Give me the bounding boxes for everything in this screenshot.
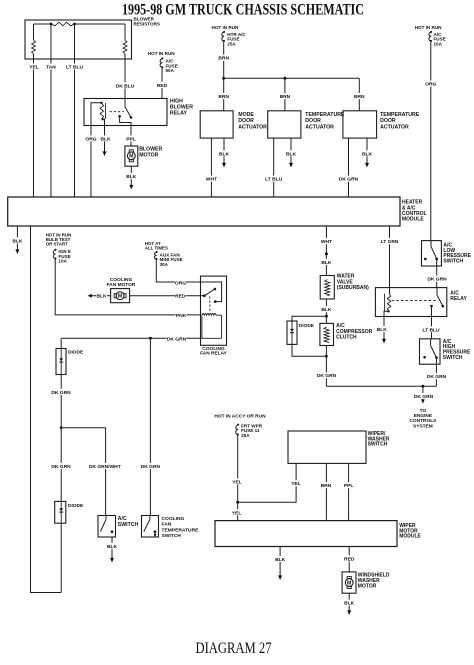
- compressor clutch A/C: [320, 323, 373, 345]
- svg-text:ORG: ORG: [425, 82, 436, 88]
- svg-text:TAN: TAN: [46, 65, 56, 71]
- switch A/C: [98, 516, 139, 538]
- svg-text:BRN: BRN: [354, 94, 365, 100]
- svg-text:BLK: BLK: [12, 238, 23, 244]
- wire DK GRN bus lower: [326, 385, 436, 388]
- svg-text:BLK: BLK: [321, 260, 332, 266]
- cooling fan motor: [107, 277, 136, 303]
- svg-text:CLUTCH: CLUTCH: [336, 335, 357, 341]
- diagram number: [196, 640, 272, 657]
- svg-text:BLK: BLK: [107, 544, 118, 550]
- wire PPL wiper: [343, 463, 354, 520]
- svg-text:DIODE: DIODE: [68, 503, 84, 509]
- ground BLK washer motor: [344, 593, 355, 615]
- wire DK GRN low pressure: [427, 266, 447, 288]
- svg-text:BRN: BRN: [280, 94, 291, 100]
- svg-text:BLK: BLK: [377, 327, 388, 333]
- diode D2: [55, 501, 84, 523]
- wire BRN bus: [224, 77, 360, 80]
- svg-text:ALL TIMES: ALL TIMES: [145, 245, 168, 250]
- svg-text:YEL: YEL: [232, 510, 242, 516]
- wire below D2: [60, 523, 62, 592]
- svg-text:DOOR: DOOR: [238, 118, 254, 124]
- wire WHT water valve: [321, 226, 332, 276]
- wire LT GRN: [380, 226, 400, 288]
- ground module BLK: [12, 226, 23, 254]
- svg-text:HOT IN RUN: HOT IN RUN: [148, 51, 175, 56]
- svg-text:M: M: [347, 580, 351, 586]
- svg-text:TEMPERATURE: TEMPERATURE: [380, 112, 420, 118]
- svg-text:MOTOR: MOTOR: [139, 153, 158, 159]
- wire diode branch bottom: [292, 344, 328, 357]
- wire WHT: [206, 138, 217, 197]
- svg-text:30A: 30A: [160, 262, 169, 267]
- svg-text:ORG: ORG: [85, 136, 96, 142]
- svg-text:1995-98 GM TRUCK CHASSIS SCHEM: 1995-98 GM TRUCK CHASSIS SCHEMATIC: [122, 1, 364, 18]
- svg-text:TO: TO: [420, 408, 427, 414]
- svg-text:DK GRN: DK GRN: [51, 390, 71, 396]
- diode D1: [56, 349, 84, 375]
- temperature door actuator 1: [268, 111, 345, 138]
- wire DK GRN bus upper: [61, 335, 200, 348]
- svg-text:FAN: FAN: [162, 522, 172, 528]
- svg-text:BLK: BLK: [344, 601, 355, 607]
- A/C relay coil: [384, 288, 391, 317]
- svg-text:DK GRN: DK GRN: [167, 336, 187, 342]
- wiper/washer switch: [288, 431, 390, 464]
- svg-text:BLK: BLK: [321, 307, 332, 313]
- svg-text:COOLING: COOLING: [162, 516, 185, 522]
- svg-text:LT BLU: LT BLU: [265, 177, 282, 183]
- wire BLK relay ground: [100, 126, 111, 157]
- wire DK BLU: [115, 59, 135, 99]
- svg-text:ACTUATOR: ACTUATOR: [380, 124, 409, 130]
- wire BRN branch 2: [279, 78, 290, 111]
- switch A/C high pressure: [420, 339, 471, 364]
- svg-text:FAN RELAY: FAN RELAY: [200, 351, 228, 357]
- wire ORG: [85, 126, 96, 198]
- wire DK GRN actuator: [339, 138, 359, 197]
- svg-text:SWITCH: SWITCH: [443, 259, 463, 265]
- svg-text:BRN: BRN: [321, 483, 332, 489]
- svg-text:MODE: MODE: [238, 112, 254, 118]
- svg-text:10A: 10A: [58, 259, 67, 264]
- wire ORG aux fan: [156, 259, 200, 286]
- wire BRN branch 3: [354, 78, 365, 111]
- svg-text:BLK: BLK: [100, 136, 111, 142]
- svg-text:BLK: BLK: [96, 294, 107, 300]
- ground BLK A/C switch: [107, 537, 118, 563]
- node to engine controls: [409, 386, 437, 429]
- svg-text:HOT IN ACCY OR RUN: HOT IN ACCY OR RUN: [214, 414, 266, 420]
- svg-text:SYSTEM: SYSTEM: [413, 423, 433, 429]
- svg-text:YEL: YEL: [291, 481, 301, 487]
- svg-text:BRN: BRN: [218, 56, 229, 62]
- svg-text:25A: 25A: [241, 433, 250, 438]
- wire DK GRN clutch: [317, 346, 337, 387]
- wire RED cooling fan: [130, 293, 201, 300]
- wire DK GRN high pressure: [427, 364, 447, 386]
- ground temp actuator 1: [286, 138, 297, 167]
- svg-text:DK GRN: DK GRN: [414, 394, 434, 400]
- relay coil: [91, 102, 106, 126]
- blower resistors: [25, 16, 160, 59]
- fuse AUX FAN MINI FUSE 30A: [145, 241, 183, 267]
- svg-text:DK GRN/WHT: DK GRN/WHT: [89, 464, 121, 470]
- wire DK GRN below D1: [51, 375, 71, 428]
- svg-text:PPL: PPL: [344, 483, 354, 489]
- svg-text:BLK: BLK: [126, 174, 137, 180]
- svg-text:50A: 50A: [166, 68, 175, 73]
- wire YEL: [29, 59, 40, 197]
- fuse HTR A/C FUSE 25A: [212, 25, 247, 46]
- svg-text:DK GRN: DK GRN: [51, 464, 71, 470]
- title: [122, 1, 364, 18]
- svg-text:MODULE: MODULE: [402, 217, 424, 223]
- svg-text:HOT IN RUN: HOT IN RUN: [212, 25, 239, 30]
- svg-text:WHT: WHT: [321, 239, 332, 245]
- ground mode actuator: [219, 138, 230, 167]
- svg-text:SWITCH: SWITCH: [443, 355, 463, 361]
- heater and A/C control module: [8, 197, 427, 226]
- svg-text:RED: RED: [157, 83, 168, 89]
- wire BRN trunk: [218, 41, 229, 111]
- wire LT BLU actuator: [264, 138, 284, 197]
- svg-text:HOT IN RUN: HOT IN RUN: [415, 25, 442, 30]
- fuse A/C FUSE 50A: [148, 51, 178, 73]
- fuse IGN E 10A: [46, 233, 72, 264]
- svg-text:BLK: BLK: [362, 151, 373, 157]
- wire PNK: [55, 259, 200, 320]
- svg-text:LT BLU: LT BLU: [66, 65, 83, 71]
- wire BLK blower motor ground: [126, 166, 137, 189]
- svg-text:DK BLU: DK BLU: [116, 83, 135, 89]
- svg-text:DIODE: DIODE: [299, 323, 315, 329]
- svg-text:BLK: BLK: [286, 151, 297, 157]
- wire BRN wiper: [321, 463, 332, 520]
- svg-text:TEMPERATURE: TEMPERATURE: [305, 112, 345, 118]
- fuse A/C FUSE 10A: [415, 25, 446, 46]
- A/C relay switch: [392, 288, 444, 317]
- svg-text:RED: RED: [344, 556, 355, 562]
- ground BLK A/C relay: [376, 317, 387, 344]
- wire TAN: [46, 59, 57, 197]
- svg-text:DK GRN: DK GRN: [317, 373, 337, 379]
- svg-text:SWITCH: SWITCH: [368, 442, 388, 448]
- svg-text:DK GRN: DK GRN: [427, 374, 447, 380]
- svg-text:BLOWER: BLOWER: [139, 146, 162, 152]
- relay cooling fan: [200, 276, 228, 357]
- wire RED washer: [344, 547, 355, 572]
- svg-text:M: M: [129, 154, 133, 160]
- windshield washer motor: [342, 572, 390, 593]
- wire BLK below water valve: [321, 299, 332, 323]
- svg-text:SWITCH: SWITCH: [162, 533, 182, 539]
- svg-text:DIODE: DIODE: [68, 350, 84, 356]
- svg-text:DK GRN: DK GRN: [141, 464, 161, 470]
- temperature door actuator 2: [343, 111, 420, 138]
- switch cooling fan temperature: [142, 516, 200, 540]
- svg-text:FAN MOTOR: FAN MOTOR: [107, 282, 136, 288]
- node T junction: [60, 426, 106, 429]
- svg-text:WHT: WHT: [206, 177, 217, 183]
- svg-text:ACTUATOR: ACTUATOR: [238, 124, 267, 130]
- svg-text:RELAY: RELAY: [170, 110, 188, 116]
- fuse FRT WPR FUSE 11 25A: [214, 414, 266, 438]
- mode door actuator: [200, 111, 267, 138]
- diode D3: [287, 321, 315, 344]
- svg-text:MODULE: MODULE: [399, 534, 421, 540]
- svg-text:ORG: ORG: [175, 281, 186, 287]
- water valve: [320, 274, 369, 299]
- svg-text:RESISTORS: RESISTORS: [134, 21, 160, 26]
- cooling fan relay coil: [201, 314, 222, 339]
- wire DK GRN temp switch: [141, 338, 161, 515]
- wire RED: [157, 68, 168, 99]
- svg-text:(SUBURBAN): (SUBURBAN): [337, 285, 369, 291]
- wire DK GRN/WHT: [89, 428, 121, 516]
- svg-text:LT GRN: LT GRN: [381, 239, 399, 245]
- wire DK GRN to D2: [51, 428, 71, 502]
- svg-text:CONTROLS: CONTROLS: [409, 418, 437, 424]
- svg-text:LT BLU: LT BLU: [422, 327, 439, 333]
- wire YEL switch branch: [238, 463, 302, 502]
- ground temp actuator 2: [362, 138, 373, 167]
- svg-text:RED: RED: [175, 294, 186, 300]
- svg-text:PNK: PNK: [176, 313, 187, 319]
- svg-text:YEL: YEL: [29, 65, 39, 71]
- svg-text:10A: 10A: [434, 41, 443, 46]
- wire left loop: [31, 226, 62, 593]
- svg-text:DOOR: DOOR: [380, 118, 396, 124]
- relay high blower: [84, 99, 193, 126]
- svg-text:M: M: [118, 294, 122, 300]
- ground BLK cooling fan motor: [88, 293, 111, 300]
- wire ORG right: [425, 41, 436, 240]
- relay switch: [110, 99, 133, 126]
- svg-text:TEMPERATURE: TEMPERATURE: [162, 527, 200, 533]
- svg-text:BLK: BLK: [219, 151, 230, 157]
- svg-text:25A: 25A: [227, 41, 236, 46]
- svg-text:DK GRN: DK GRN: [427, 277, 447, 283]
- wire diode branch top: [292, 316, 326, 321]
- wire YEL wiper feed: [231, 435, 242, 521]
- wiper motor module: [215, 521, 422, 547]
- switch A/C low pressure: [422, 241, 472, 266]
- wire LT BLU: [65, 59, 85, 197]
- svg-text:MOTOR: MOTOR: [358, 584, 377, 590]
- svg-text:DIAGRAM 27: DIAGRAM 27: [196, 640, 272, 657]
- svg-text:ENGINE: ENGINE: [414, 413, 433, 419]
- relay A/C: [375, 288, 467, 317]
- svg-text:ACTUATOR: ACTUATOR: [305, 124, 334, 130]
- svg-text:OR START: OR START: [46, 241, 68, 246]
- svg-text:BLK: BLK: [275, 557, 286, 563]
- wire PPL: [126, 126, 137, 147]
- svg-text:DK GRN: DK GRN: [339, 177, 359, 183]
- svg-text:A/C: A/C: [118, 516, 127, 522]
- svg-text:SWITCH: SWITCH: [118, 522, 139, 528]
- svg-text:DOOR: DOOR: [305, 118, 321, 124]
- blower motor: [125, 146, 163, 166]
- wire LT BLU A/C relay: [421, 317, 441, 339]
- svg-text:YEL: YEL: [232, 479, 242, 485]
- ground BLK wiper module: [275, 547, 286, 581]
- cooling fan relay contacts: [201, 282, 222, 312]
- svg-text:BRN: BRN: [218, 94, 229, 100]
- svg-text:RELAY: RELAY: [450, 296, 467, 302]
- svg-text:PPL: PPL: [126, 136, 136, 142]
